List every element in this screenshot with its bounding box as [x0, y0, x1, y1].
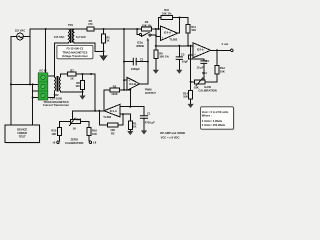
terminal V out	[231, 49, 233, 51]
wire R7 to signal node and down	[76, 74, 95, 111]
node after R6	[155, 28, 157, 30]
svg-text:F5-12-090-C2: F5-12-090-C2	[67, 47, 84, 51]
wire connector bottom stub	[33, 84, 38, 125]
node feedback left	[157, 28, 159, 30]
svg-text:PWM: PWM	[145, 88, 152, 92]
svg-text:10µF: 10µF	[182, 60, 189, 64]
potentiometer R17 1K (zero adjust)	[59, 111, 89, 131]
node pot left	[190, 81, 192, 83]
capacitor C2 1000uF	[124, 57, 148, 71]
svg-text:10K: 10K	[92, 132, 97, 136]
node neutral-DUT junction	[10, 83, 12, 85]
analog switch IC3a 4066B	[136, 29, 156, 48]
svg-text:-: -	[117, 107, 118, 110]
svg-text:10K: 10K	[110, 128, 115, 132]
svg-text:R3: R3	[111, 132, 115, 136]
resistor R11 10K	[186, 25, 196, 46]
svg-text:-: -	[195, 46, 196, 49]
node R5 ground junction	[103, 50, 105, 52]
op-amp IC1-b	[127, 78, 140, 91]
potentiometer R13 10K GAIN CALIBRATION	[194, 71, 208, 89]
svg-text:C3: C3	[181, 52, 185, 56]
wire gain feedback riser	[190, 46, 192, 91]
svg-text:IC1-B: IC1-B	[129, 82, 136, 86]
svg-text:0 Volts= 0 Watts: 0 Volts= 0 Watts	[202, 119, 223, 123]
op-amp IC4-d	[160, 26, 177, 41]
node switch output	[155, 34, 157, 36]
svg-text:1K: 1K	[133, 125, 136, 129]
ground R9	[153, 70, 159, 74]
resistor R1 1K	[128, 121, 137, 131]
svg-text:Vout = 0 to 2.50 volts: Vout = 0 to 2.50 volts	[202, 110, 229, 114]
resistor R10 10K 1%	[161, 8, 172, 19]
svg-text:1K: 1K	[106, 39, 109, 43]
resistor R14 10K	[183, 91, 193, 104]
svg-text:1000µF: 1000µF	[131, 67, 141, 71]
svg-text:100: 100	[75, 84, 80, 88]
ground R1	[127, 131, 133, 135]
svg-text:1K: 1K	[73, 127, 76, 131]
svg-text:UNDER: UNDER	[17, 131, 27, 135]
svg-text:Voltage Transformer: Voltage Transformer	[62, 54, 88, 58]
ground C1	[141, 130, 147, 134]
svg-text:OUTPUT: OUTPUT	[145, 91, 156, 95]
resistor R8 100	[75, 74, 84, 92]
node plus input tap	[123, 79, 125, 81]
wire R3 right up to comparator input	[118, 114, 123, 125]
node feedback joins top input	[129, 106, 131, 108]
node C2 right on PWM line	[147, 61, 149, 63]
svg-text:C1: C1	[147, 112, 151, 116]
ground C3	[176, 70, 182, 74]
node R8 top	[82, 73, 84, 75]
transformer TR2 current transformer windings	[55, 77, 61, 92]
wire IC1-a output row	[73, 110, 105, 112]
wire IC1-b output to PWM riser	[140, 40, 148, 84]
svg-text:IC4-d: IC4-d	[164, 30, 171, 34]
wire IC1-a top input to C1	[120, 107, 144, 116]
svg-text:AC IN: AC IN	[39, 69, 46, 73]
wire plus input stub IC4-d	[156, 35, 161, 37]
wire voltage signal vertical to modulator	[123, 29, 125, 90]
terminal -8	[89, 141, 91, 143]
wire CT primary bottom return	[33, 91, 55, 98]
svg-text:100K: 100K	[111, 92, 117, 96]
resistor R5 1K	[102, 29, 111, 51]
node AC hot tee	[29, 83, 31, 85]
svg-text:V out: V out	[221, 42, 228, 46]
wire IC1-a bottom input row	[120, 114, 130, 121]
svg-text:10K: 10K	[51, 132, 56, 136]
svg-text:-: -	[162, 29, 163, 32]
svg-text:GAIN: GAIN	[204, 85, 211, 89]
node R3 drop junction	[98, 110, 100, 112]
wire IC4-d output riser	[178, 18, 180, 34]
svg-text:TL082: TL082	[170, 38, 178, 42]
node C2 tap	[123, 61, 125, 63]
node gain feedback top	[190, 45, 192, 47]
svg-text:4066B: 4066B	[136, 44, 144, 48]
resistor R4 470	[87, 19, 94, 31]
svg-text:OP-AMP and 4066B: OP-AMP and 4066B	[160, 131, 185, 135]
svg-text:4700 pF: 4700 pF	[145, 121, 155, 125]
svg-text:R10: R10	[164, 8, 169, 12]
svg-text:10K: 10K	[183, 95, 188, 99]
svg-text:TR1: TR1	[68, 23, 74, 27]
svg-text:C4: C4	[205, 59, 209, 63]
transformer TR1 box with windings	[48, 23, 95, 76]
wire neutral horizontal into connector middle	[11, 83, 38, 85]
svg-text:IC4-b: IC4-b	[197, 47, 204, 51]
svg-text:470: 470	[88, 22, 93, 26]
note box Vout scale	[201, 107, 235, 130]
node output junction	[216, 49, 218, 51]
svg-text:CALIBRATION: CALIBRATION	[65, 141, 83, 145]
wire filter row to IC4-b minus	[156, 45, 193, 47]
svg-text:1K: 1K	[70, 76, 73, 80]
node minus/R2 junction	[123, 89, 125, 91]
wire R2 row into minus input	[119, 89, 130, 91]
resistor R3 10K	[107, 123, 118, 135]
node CT return junction	[32, 97, 34, 99]
node C4 bottom on pot row	[203, 81, 205, 83]
capacitor C1 4700 pF	[140, 112, 155, 131]
node signal tap top	[123, 28, 125, 30]
ground R5	[100, 51, 106, 60]
svg-text:10 µF: 10 µF	[197, 66, 204, 70]
node R6 left / switch drop	[136, 28, 138, 30]
svg-text:10K: 10K	[220, 69, 225, 73]
svg-text:TRIAD MAGNETICS: TRIAD MAGNETICS	[62, 51, 87, 55]
svg-text:2 Volts= 200 Watts: 2 Volts= 200 Watts	[202, 123, 226, 127]
svg-text:R2: R2	[113, 84, 117, 88]
svg-text:115 VAC: 115 VAC	[54, 35, 65, 39]
resistor R16 10K	[87, 121, 98, 141]
wire R3 drop and row	[99, 111, 107, 125]
svg-text:6.3 VAC: 6.3 VAC	[76, 35, 86, 39]
arrow PWM control into IC3a switch	[147, 38, 150, 41]
wire AC left lead down to DUT	[11, 37, 17, 126]
svg-text:10K: 10K	[191, 28, 196, 32]
svg-text:R13: R13	[202, 71, 207, 75]
svg-text:ZERO: ZERO	[70, 137, 77, 141]
wire TR1 secondary bottom to R5 foot	[95, 43, 104, 51]
resistor R6 10K 1%	[141, 20, 152, 31]
wire TR1 primary return down to connector top	[45, 29, 47, 73]
capacitor C4 10uF	[197, 59, 210, 82]
svg-text:R7: R7	[70, 68, 74, 72]
node filter row left	[155, 45, 157, 47]
DUT box DEVICE UNDER TEST	[5, 125, 40, 143]
node CT signal joins output row	[94, 110, 96, 112]
terminal +8	[57, 141, 59, 143]
svg-text:Current Transformer: Current Transformer	[43, 103, 69, 107]
resistor R12 10K	[191, 50, 226, 82]
svg-text:10K 1%: 10K 1%	[142, 23, 152, 27]
connector J1 AC IN (green terminal block)	[38, 69, 48, 100]
svg-text:Where :: Where :	[202, 114, 212, 118]
svg-text:C2: C2	[140, 57, 144, 61]
svg-text:CALIBRATION: CALIBRATION	[198, 89, 216, 93]
wire comparator feedback riser	[129, 90, 131, 107]
svg-text:+8: +8	[52, 140, 56, 144]
op-amp IC1-a (points left)	[104, 104, 120, 117]
node C3 top	[178, 45, 180, 47]
wire top signal row to IC4-d	[137, 28, 160, 30]
resistor R9 10K 1%	[154, 50, 170, 70]
wire feedback row R10	[158, 18, 188, 30]
wire IC4-b output to V out	[211, 49, 231, 51]
AC source V1 115 VAC	[15, 29, 26, 40]
node on signal wire	[90, 73, 92, 75]
svg-text:TEST: TEST	[19, 135, 26, 139]
wire AC right lead up and right to TR1	[23, 29, 137, 84]
svg-text:(-8: (-8	[93, 140, 97, 144]
label TR2 CST-1005 TRIAD-MAGNETICS Current Transformer	[43, 93, 69, 107]
node secondary ground junction	[82, 91, 84, 93]
svg-text:TL082: TL082	[103, 115, 111, 119]
svg-text:VCC = ± 8 VDC: VCC = ± 8 VDC	[161, 136, 180, 140]
node output joins feedback	[179, 17, 181, 19]
node R2 right riser junction	[129, 89, 131, 91]
svg-text:IC3a: IC3a	[137, 40, 143, 44]
capacitor C3 10uF	[176, 46, 189, 70]
wire plus input stub	[124, 79, 127, 81]
svg-text:115 VAC: 115 VAC	[15, 29, 26, 33]
svg-text:DEVICE: DEVICE	[17, 128, 27, 132]
svg-text:IC1-A: IC1-A	[110, 109, 117, 113]
wire switch node vertical to R9	[155, 29, 157, 50]
node TR1 primary tee	[45, 28, 47, 30]
node R11 bottom	[187, 45, 189, 47]
ground TR2	[79, 96, 85, 100]
svg-text:R17: R17	[76, 118, 81, 122]
op-amp IC4-b	[193, 43, 211, 58]
svg-text:10K 1%: 10K 1%	[162, 12, 172, 16]
wire TR2 secondary bottom to ground	[60, 91, 82, 95]
node R3 joins bottom input	[122, 113, 124, 115]
label box F5-12-090-C2 TRIAD MAGNETICS Voltage Transformer	[57, 45, 93, 58]
ground R14	[188, 104, 194, 108]
resistor R2 100K	[104, 84, 120, 96]
resistor R7 1K	[68, 68, 77, 80]
svg-text:10K 1%: 10K 1%	[159, 55, 169, 59]
resistor R15 10K	[51, 121, 61, 141]
wire R2 left down to IC1-a output node	[103, 90, 105, 111]
wire TR2 secondary top to R7	[60, 74, 67, 77]
wire plus input to C4	[189, 55, 204, 61]
node divider tap	[103, 28, 105, 30]
